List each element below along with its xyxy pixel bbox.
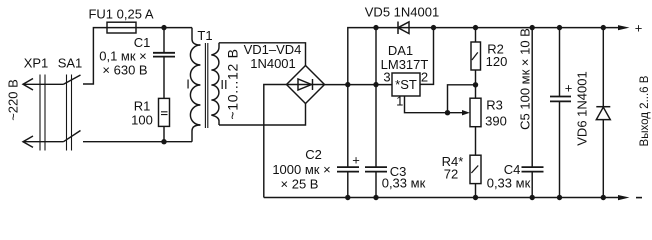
diode VD5: [397, 22, 399, 35]
capacitor C4: [531, 28, 533, 198]
svg-text:VD6 1N4001: VD6 1N4001: [575, 71, 590, 145]
node pin2 top rail: [431, 25, 436, 30]
node VD6 bottom: [601, 195, 606, 200]
svg-text:C5 100 мк × 10 В: C5 100 мк × 10 В: [518, 28, 533, 130]
node C5 top: [557, 25, 562, 30]
label minus output: [636, 197, 642, 199]
wire bottom rail: [264, 197, 619, 199]
svg-text:*ST: *ST: [395, 77, 417, 92]
bridge rectifier VD1-VD4: [287, 66, 325, 104]
resistor R3 potentiometer: [475, 85, 477, 98]
svg-text:R1: R1: [134, 98, 151, 113]
svg-text:~220 В: ~220 В: [6, 79, 21, 121]
svg-text:C2: C2: [305, 147, 322, 162]
wire XP1 top to SA1: [23, 83, 64, 85]
regulator DA1: [392, 73, 420, 96]
capacitor C2: [347, 85, 349, 198]
svg-text:2: 2: [421, 70, 428, 85]
switch SA1 blade bottom: [64, 131, 81, 142]
svg-text:SA1: SA1: [58, 56, 83, 71]
node top rail B: [373, 25, 378, 30]
wire SA1 top pole to fuse: [83, 28, 107, 84]
svg-text:FU1 0,25 A: FU1 0,25 A: [88, 7, 153, 22]
output minus arrow: [618, 195, 630, 200]
wire pin 2 to top rail: [420, 28, 434, 85]
wire pin 1 adj: [405, 96, 463, 113]
transformer T1 primary lead bottom: [192, 125, 200, 142]
wire adj to divider node: [448, 85, 476, 113]
wire top rail: [376, 27, 619, 29]
node C2 bottom: [345, 195, 350, 200]
node plus B: [373, 82, 378, 87]
svg-text:T1: T1: [197, 28, 212, 43]
node VD6 top: [601, 25, 606, 30]
wire XP1 bottom to SA1: [23, 141, 64, 143]
capacitor C1: [163, 28, 165, 99]
transformer T1 primary lead top: [192, 28, 200, 45]
wiper arrow R3: [462, 110, 470, 115]
transformer T1 secondary winding II: [211, 55, 219, 115]
node C4 bottom: [530, 195, 535, 200]
wire bottom 220V side: [83, 141, 192, 143]
transformer T1 secondary lead top: [211, 43, 219, 55]
transformer T1 core: [205, 43, 207, 128]
diode VD6: [602, 28, 604, 107]
svg-text:Выход 2...6 В: Выход 2...6 В: [639, 75, 651, 146]
plug XP1 arrow bottom: [23, 136, 33, 147]
wire C1 node to T1: [164, 27, 192, 29]
resistor R4: [470, 155, 481, 183]
switch SA1 blade top: [64, 75, 81, 84]
svg-text:0,33 мк: 0,33 мк: [382, 176, 426, 191]
wire fuse to C1 node: [136, 27, 164, 29]
svg-text:× 630 В: × 630 В: [102, 63, 147, 78]
resistor R2: [475, 28, 477, 42]
svg-text:+: +: [352, 153, 360, 168]
wire second link to VD5 rail: [375, 28, 377, 85]
capacitor C3: [375, 85, 377, 198]
wire bridge minus to bottom rail: [264, 85, 287, 198]
transformer T1 secondary lead bottom: [211, 115, 219, 125]
svg-text:1: 1: [396, 94, 403, 109]
wire secondary top to bridge top corner: [219, 43, 306, 66]
node C4 top: [530, 25, 535, 30]
svg-text:DA1: DA1: [388, 43, 413, 58]
node plus A: [345, 82, 350, 87]
svg-text:3: 3: [383, 70, 390, 85]
resistor R1: [159, 98, 170, 126]
node C5 bottom: [557, 195, 562, 200]
plug XP1 arrow top: [23, 79, 33, 91]
svg-text:~10...12 В: ~10...12 В: [225, 48, 241, 119]
svg-text:I: I: [186, 77, 190, 92]
svg-text:0,33 мк: 0,33 мк: [487, 176, 531, 191]
svg-text:R3: R3: [486, 98, 503, 113]
node adj junction: [445, 110, 450, 115]
svg-text:120: 120: [486, 54, 508, 69]
wire bridge plus to DA1 input: [325, 84, 393, 86]
output plus arrow: [618, 25, 630, 30]
svg-text:0,1 мк ×: 0,1 мк ×: [99, 49, 147, 64]
node divider: [473, 82, 478, 87]
node C3 bottom: [373, 195, 378, 200]
node R4 bottom: [473, 195, 478, 200]
node R2 top: [473, 25, 478, 30]
capacitor C5: [559, 28, 561, 198]
svg-text:1N4001: 1N4001: [250, 56, 296, 71]
svg-text:VD5 1N4001: VD5 1N4001: [365, 5, 439, 20]
svg-text:+: +: [635, 21, 643, 36]
svg-text:390: 390: [485, 114, 507, 129]
node C1 junction: [161, 25, 166, 30]
wire secondary bottom to bridge bottom corner: [219, 104, 306, 126]
svg-text:100: 100: [131, 112, 153, 127]
node R1 bottom junction: [161, 139, 166, 144]
connector XP1 contact lines: [40, 75, 45, 151]
transformer T1 primary winding I: [190, 45, 200, 125]
connector SA1 contact lines: [67, 75, 72, 151]
svg-text:1000 мк ×: 1000 мк ×: [272, 162, 330, 177]
svg-text:XP1: XP1: [24, 56, 49, 71]
wire up to VD5 rail: [348, 28, 376, 85]
svg-text:+: +: [565, 81, 573, 96]
svg-text:× 25 В: × 25 В: [281, 177, 319, 192]
svg-text:72: 72: [444, 167, 458, 182]
svg-text:VD1–VD4: VD1–VD4: [244, 42, 302, 57]
fuse FU1: [107, 22, 136, 33]
